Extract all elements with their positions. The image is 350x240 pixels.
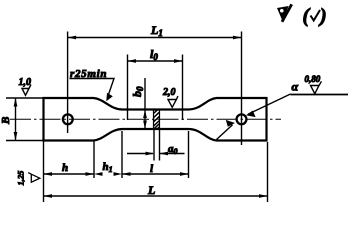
h/h1 extension at 94 [93, 142, 95, 179]
roughness 1,25 triangle [28, 173, 40, 183]
svg-text:l: l [150, 163, 154, 175]
dimension L [44, 194, 268, 198]
svg-text:L: L [147, 183, 155, 197]
r25min arrow [106, 93, 113, 102]
section hatch bar [154, 110, 160, 129]
svg-text:2,0: 2,0 [162, 87, 176, 98]
l right extension at 188.5 [188, 131, 190, 178]
roughness 0,80 triangle [311, 81, 322, 93]
svg-text:B: B [0, 117, 12, 125]
top-right machining symbol body [277, 6, 289, 22]
svg-text:h1: h1 [103, 161, 113, 174]
B top extension [6, 97, 44, 99]
svg-text:L1: L1 [150, 23, 163, 38]
svg-text:(: ( [303, 5, 311, 27]
svg-text:α: α [292, 80, 299, 94]
alpha shelf [291, 94, 349, 96]
dimension l [122, 172, 189, 176]
dimension B [14, 98, 18, 141]
roughness 2,0 triangle [168, 96, 178, 107]
dimension L1 [68, 36, 242, 40]
B bottom extension [6, 140, 44, 142]
specimen outline [44, 98, 267, 141]
alpha leader to right hole [248, 94, 291, 114]
machining symbol circle [279, 8, 284, 13]
hole left [63, 114, 73, 124]
hole right [237, 114, 247, 124]
svg-text:h: h [62, 162, 68, 174]
svg-text:l0: l0 [150, 47, 158, 62]
dimension h1 arrows [94, 172, 122, 176]
h1/l extension at 122 [121, 131, 123, 178]
machining symbol upstroke [282, 4, 292, 22]
roughness 1,0 triangle [22, 85, 31, 96]
a0 extension left [153, 129, 155, 161]
alpha leader arrowhead [246, 111, 256, 118]
dimension a0 [127, 152, 185, 156]
dimension l0 [128, 59, 183, 63]
check in parens [311, 10, 321, 21]
svg-text:b0: b0 [130, 86, 145, 97]
centerline [10, 118, 281, 120]
a0 extension right [159, 129, 161, 161]
svg-text:0,80: 0,80 [305, 74, 321, 84]
svg-text:1,0: 1,0 [19, 77, 32, 88]
svg-text:): ) [318, 5, 327, 27]
L right extension [267, 142, 269, 202]
L left extension [43, 142, 45, 203]
L1 right extension / right hole centerline [241, 32, 243, 146]
hole diameter arrowhead [226, 120, 235, 127]
l0 left extension [127, 55, 129, 121]
r25min underline and leader [70, 79, 115, 99]
dimension h [44, 172, 95, 176]
svg-text:a0: a0 [168, 143, 178, 156]
svg-text:1,25: 1,25 [16, 170, 26, 186]
l0 right extension [182, 55, 184, 121]
hole diameter arrow lower-left [217, 125, 233, 140]
dimension b0 [143, 78, 147, 129]
L1 left extension / left hole centerline [67, 32, 69, 134]
